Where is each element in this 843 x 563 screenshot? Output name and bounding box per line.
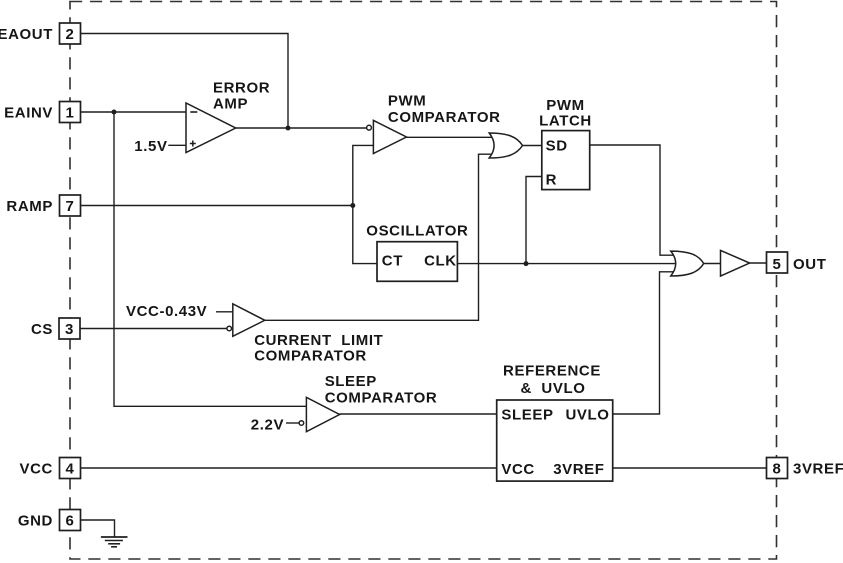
wire error amp output to PWM comparator inverting bubble: [236, 127, 367, 129]
op-amp error amp: [186, 103, 236, 153]
svg-text:OUT: OUT: [793, 256, 826, 273]
wire buffer output to pin 5: [750, 262, 767, 264]
svg-text:4: 4: [66, 461, 75, 478]
svg-text:3: 3: [65, 321, 74, 338]
pin 1 EAINV: [4, 102, 80, 123]
pin 3 CS: [31, 318, 80, 339]
pin 6 GND: [18, 510, 81, 531]
svg-text:RAMP: RAMP: [6, 198, 53, 215]
svg-text:2.2V: 2.2V: [251, 417, 284, 434]
label SLEEP COMPARATOR: [325, 373, 438, 407]
svg-text:EAINV: EAINV: [4, 105, 53, 122]
label 2.2V: [251, 417, 284, 434]
svg-text:OSCILLATOR: OSCILLATOR: [366, 223, 468, 240]
svg-text:AMP: AMP: [213, 96, 248, 113]
wire RAMP branch up to PWM comparator input: [353, 145, 374, 205]
OR gate U1 before PWM latch: [489, 133, 522, 158]
wire current limit comparator output up to OR gate lower input: [265, 154, 498, 320]
svg-text:PWM: PWM: [388, 93, 426, 110]
wire EAINV branch down to sleep comparator input: [114, 112, 306, 406]
wire UVLO output up to output OR gate bottom input: [613, 272, 680, 414]
svg-text:GND: GND: [18, 513, 53, 530]
svg-text:1.5V: 1.5V: [134, 138, 167, 155]
wire VCC-0.43V stub to current limit comparator input: [216, 311, 233, 313]
pin 5 OUT: [767, 252, 827, 273]
wire PWM comparator output to OR gate: [407, 136, 499, 138]
ground: [101, 537, 128, 547]
svg-text:VCC: VCC: [20, 461, 53, 478]
node A junction dot EAINV: [112, 110, 117, 115]
wire EAOUT feedback from pin 2 to error amp output: [81, 34, 289, 129]
svg-text:UVLO: UVLO: [566, 407, 610, 424]
pin 8 3VREF: [767, 458, 843, 479]
svg-text:PWM: PWM: [546, 97, 584, 114]
svg-text:6: 6: [66, 513, 75, 530]
svg-text:& UVLO: & UVLO: [520, 380, 585, 397]
OR gate U2 output: [671, 251, 704, 276]
node B junction dot error amp output: [286, 126, 291, 131]
svg-text:3VREF: 3VREF: [553, 461, 604, 478]
label OSCILLATOR: [366, 223, 468, 240]
buffer output driver: [721, 250, 750, 276]
svg-text:CT: CT: [382, 253, 403, 270]
comparator current limit: [227, 304, 265, 337]
reference and UVLO box: [497, 400, 613, 481]
svg-text:REFERENCE: REFERENCE: [503, 363, 601, 380]
svg-text:VCC: VCC: [501, 461, 534, 478]
label ERROR AMP: [213, 80, 270, 113]
oscillator box CT CLK: [377, 242, 457, 282]
wire latch output to output OR gate top input: [590, 145, 680, 255]
svg-text:ERROR: ERROR: [213, 80, 270, 97]
svg-text:LATCH: LATCH: [539, 113, 592, 130]
svg-text:R: R: [546, 172, 557, 189]
wire 1.5V stub to error amp non-inverting input: [168, 144, 186, 146]
wire 3VREF from reference box to pin 8: [613, 467, 767, 469]
wire latch R input to clock line: [526, 177, 542, 264]
wire VCC from pin 4 to reference box: [81, 467, 497, 469]
svg-text:7: 7: [66, 198, 75, 215]
svg-text:COMPARATOR: COMPARATOR: [388, 109, 501, 126]
svg-text:COMPARATOR: COMPARATOR: [254, 348, 367, 365]
wire RAMP from pin 7: [81, 205, 353, 207]
svg-text:SLEEP: SLEEP: [325, 373, 377, 390]
svg-text:3VREF: 3VREF: [793, 461, 843, 478]
svg-text:COMPARATOR: COMPARATOR: [325, 390, 438, 407]
wire OR gate output to latch SD input: [523, 145, 542, 147]
svg-text:SLEEP: SLEEP: [501, 407, 553, 424]
svg-text:5: 5: [773, 256, 782, 273]
wire 2.2V stub to sleep comparator bubble: [286, 422, 299, 424]
label 1.5V: [134, 138, 167, 155]
pin 2 EAOUT: [0, 23, 81, 44]
comparator sleep: [299, 397, 340, 431]
pin 7 RAMP: [6, 195, 80, 216]
wire output OR gate to buffer: [704, 263, 721, 265]
svg-text:CLK: CLK: [424, 253, 457, 270]
latch PWM SD/R box: [542, 131, 590, 190]
node C junction dot RAMP: [350, 203, 355, 208]
svg-text:VCC-0.43V: VCC-0.43V: [126, 303, 207, 320]
wire RAMP branch down to oscillator CT input: [353, 206, 377, 264]
wire CS from pin 3 to current limit comparator bubble: [80, 328, 227, 330]
svg-text:CURRENT LIMIT: CURRENT LIMIT: [254, 332, 383, 349]
label CURRENT LIMIT COMPARATOR: [254, 332, 383, 365]
svg-text:EAOUT: EAOUT: [0, 26, 53, 43]
label PWM LATCH: [539, 97, 592, 130]
wire GND from pin 6 to ground symbol: [81, 520, 115, 537]
svg-text:2: 2: [66, 26, 75, 43]
wire sleep comparator output to reference SLEEP input: [340, 413, 497, 415]
node D junction dot CLK and R: [524, 261, 529, 266]
wire CLK line from oscillator to output OR gate: [457, 263, 681, 265]
svg-text:1: 1: [66, 105, 75, 122]
label PWM COMPARATOR: [388, 93, 501, 126]
wire EAINV from pin 1 to error amp inverting input: [81, 111, 187, 113]
svg-text:8: 8: [773, 461, 782, 478]
label REFERENCE & UVLO: [503, 363, 601, 398]
pin 4 VCC: [20, 458, 81, 479]
comparator PWM: [367, 120, 407, 153]
svg-text:CS: CS: [31, 321, 53, 338]
svg-text:SD: SD: [546, 138, 568, 155]
label VCC-0.43V: [126, 303, 207, 320]
